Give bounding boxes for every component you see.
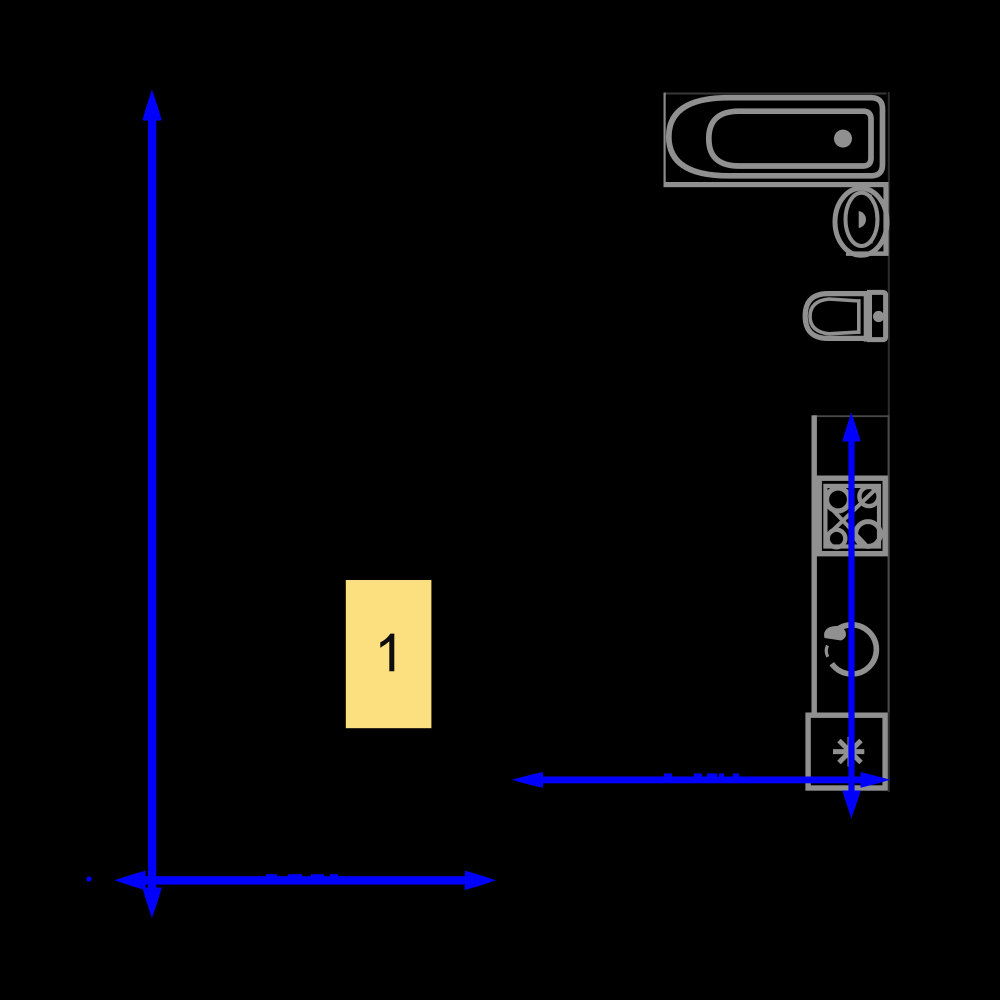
bathtub drain (834, 130, 852, 148)
dimension arrow horizontal right (511, 772, 890, 788)
kitchen counter thin outline (813, 415, 889, 712)
dimension arrow vertical right (842, 412, 860, 819)
dimension arrow vertical left (143, 89, 162, 919)
dimension text marks bottom (266, 874, 338, 877)
dimension text marks right (664, 773, 739, 776)
refrigerator (808, 715, 885, 788)
wall thin line right edge (888, 92, 890, 792)
bathtub enclosure thin outline (664, 93, 887, 185)
wall line below bathtub (664, 182, 889, 187)
washbasin (835, 187, 889, 256)
refrigerator snowflake (833, 737, 864, 767)
kitchen sink (818, 625, 876, 674)
dimension arrow horizontal bottom (114, 871, 497, 890)
kitchen counter left edge (812, 415, 817, 713)
room 1 label (380, 634, 394, 672)
dimension dot bottom left (86, 876, 91, 881)
toilet flush button (873, 311, 884, 322)
bathtub (669, 98, 883, 176)
stove (819, 478, 885, 554)
toilet (805, 291, 885, 342)
room 1 fill (346, 580, 432, 728)
